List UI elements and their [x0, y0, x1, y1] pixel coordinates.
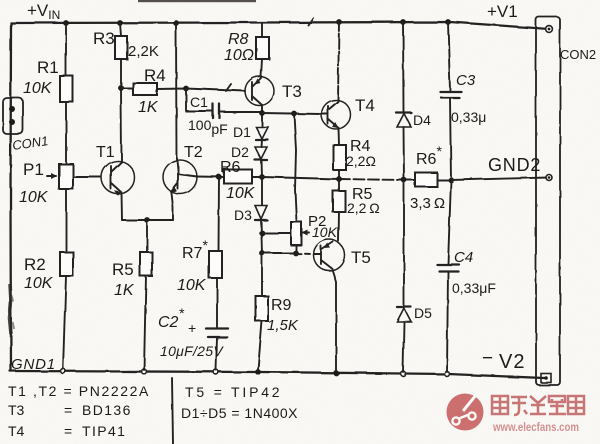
svg-text:0,33μ: 0,33μ: [451, 109, 486, 125]
svg-text:T1: T1: [96, 144, 115, 161]
svg-text:T4: T4: [8, 423, 25, 439]
svg-text:2,2 Ω: 2,2 Ω: [347, 200, 380, 216]
wire T4 base line: [262, 113, 321, 114]
node top rail junctions: [63, 20, 69, 26]
potentiometer P1: [59, 164, 73, 189]
wire R9 to GND1: [258, 321, 262, 370]
resistor R3: [115, 36, 127, 59]
svg-text:R8: R8: [228, 31, 249, 48]
svg-text:0,33μF: 0,33μF: [452, 280, 496, 296]
diode D3: [255, 206, 267, 220]
wire mid node to D3: [261, 177, 263, 205]
wire P2 top to T4 base node: [294, 114, 297, 222]
wire T3 collector to diode chain: [261, 105, 263, 126]
svg-text:D2: D2: [231, 144, 249, 160]
legend divider: [172, 378, 173, 444]
svg-text:www.elecfans.com: www.elecfans.com: [492, 420, 579, 434]
svg-text:10μF/25V: 10μF/25V: [160, 343, 224, 359]
wire R9 lead: [261, 253, 263, 296]
resistor R8 top lead: [261, 23, 263, 37]
transistor T4: [322, 100, 351, 129]
svg-text:V2: V2: [499, 351, 525, 373]
svg-text:R5: R5: [112, 260, 134, 279]
capacitor C3: [440, 90, 461, 92]
resistor R8: [256, 37, 269, 59]
svg-text:T5: T5: [351, 248, 371, 267]
wire R8 to T3: [261, 59, 262, 77]
svg-text:R2: R2: [24, 255, 46, 274]
svg-text:=: =: [64, 423, 72, 439]
diode D1: [256, 127, 268, 139]
svg-text:D1÷D5 = 1N400X: D1÷D5 = 1N400X: [181, 405, 298, 421]
svg-text:GND1: GND1: [11, 356, 56, 373]
svg-text:2,2K: 2,2K: [128, 43, 159, 60]
wire R2 to GND1: [63, 276, 66, 369]
wire left rail: [9, 23, 12, 371]
paper grain: [0, 0, 1, 1]
resistor R5 (2,2 ohm): [338, 179, 340, 191]
svg-text:P1: P1: [23, 160, 44, 179]
svg-text:10K: 10K: [23, 80, 53, 97]
svg-text:R1: R1: [37, 58, 59, 77]
svg-text:R6: R6: [220, 159, 241, 176]
resistor R1: [60, 76, 73, 102]
resistor R2: [60, 252, 73, 276]
watermark CJK text: [492, 396, 584, 415]
left rail ink smudge: [10, 284, 12, 334]
svg-text:10K: 10K: [177, 277, 207, 294]
wire R1 top lead: [65, 23, 67, 76]
wire D3 to P2 node: [261, 220, 262, 253]
wire T5 collector to -V2 rail: [332, 269, 336, 371]
connector CON1: [3, 98, 23, 134]
watermark logo: [447, 394, 484, 431]
wire R1 to P1: [65, 102, 67, 164]
scan streak top edge: [138, 0, 256, 2]
wire pen tick on base wire: [226, 84, 231, 91]
wire T5 base line: [262, 252, 296, 254]
connector CON2: [536, 17, 560, 385]
diode D4: [396, 111, 411, 113]
capacitor C2: [206, 327, 228, 329]
svg-text:T1 ,T2 = PN2222A: T1 ,T2 = PN2222A: [8, 383, 150, 399]
wire P2 wiper line: [262, 232, 291, 234]
svg-text:D3: D3: [234, 207, 252, 223]
svg-text:3,3 Ω: 3,3 Ω: [410, 195, 445, 212]
wire T4 emitter: [338, 128, 341, 145]
wire T1 collector to R3 node: [120, 88, 123, 161]
svg-text:=: =: [64, 402, 72, 418]
wire to R5: [146, 220, 148, 252]
capacitor C4 column: [448, 180, 451, 264]
wire P1 to R2: [65, 189, 67, 252]
diode D5 column: [403, 180, 405, 307]
resistor R5 (1K): [140, 252, 152, 276]
svg-text:BD136: BD136: [82, 402, 132, 418]
wire R4 to T3 base: [157, 89, 245, 92]
wire R7 branch: [218, 177, 221, 251]
resistor R4 (2,2 ohm): [333, 145, 346, 170]
resistor R9: [256, 296, 269, 321]
svg-text:T2: T2: [184, 144, 203, 161]
svg-text:D5: D5: [414, 305, 432, 321]
wire R6 to diode chain: [252, 176, 262, 178]
wire top rail +VIN to +V1: [11, 22, 549, 29]
capacitor C1: [186, 89, 212, 111]
wire R5 to T5 emitter: [338, 212, 341, 241]
wire pen tick on top rail: [308, 18, 313, 25]
transistor T3: [245, 77, 274, 106]
wire R5 to GND1: [144, 276, 146, 370]
svg-text:10K: 10K: [19, 189, 49, 206]
svg-text:R3: R3: [93, 29, 115, 48]
node bottom rail junctions: [61, 369, 66, 374]
wire GND2 to CON2: [451, 178, 549, 181]
svg-text:10K: 10K: [226, 185, 256, 202]
wire R4 to output node: [338, 170, 340, 179]
svg-text:−: −: [482, 348, 493, 369]
svg-text:+: +: [188, 320, 196, 336]
resistor R4 (1K): [133, 83, 157, 95]
svg-text:TIP41: TIP41: [82, 423, 126, 439]
svg-text:2,2Ω: 2,2Ω: [346, 153, 376, 169]
svg-text:C4: C4: [454, 249, 473, 266]
wire T2 collector to R6: [197, 176, 224, 179]
wire T4 collector to rail: [338, 22, 339, 101]
svg-text:10K: 10K: [24, 275, 54, 292]
resistor R6 (10K): [224, 170, 252, 184]
wire T1 emitter down: [121, 193, 124, 220]
svg-text:T3: T3: [8, 402, 25, 418]
svg-text:+V1: +V1: [487, 2, 518, 21]
svg-text:T3: T3: [282, 82, 302, 101]
svg-text:10K: 10K: [312, 224, 338, 240]
transistor T5: [314, 240, 345, 271]
diode D5: [397, 306, 411, 308]
svg-text:T4: T4: [355, 96, 375, 115]
transistor T1: [102, 161, 135, 194]
svg-text:1K: 1K: [114, 282, 135, 299]
resistor R6* (3,3 ohm): [415, 173, 437, 187]
resistor R3 top lead: [120, 23, 121, 36]
transistor T2: [163, 160, 197, 194]
capacitor C4: [437, 263, 459, 265]
wire output rail to GND2: [262, 177, 339, 179]
wire R7 to C2: [216, 278, 218, 327]
wire P1 wiper node to T1 base: [73, 176, 101, 178]
svg-text:T5 = TIP42: T5 = TIP42: [185, 384, 282, 400]
svg-text:R9: R9: [271, 297, 292, 314]
svg-text:D1: D1: [233, 124, 251, 140]
wire R3 to R4 node: [120, 59, 122, 88]
svg-text:C3: C3: [456, 72, 476, 89]
svg-text:GND2: GND2: [488, 155, 541, 175]
svg-text:C1: C1: [190, 94, 208, 110]
svg-text:10Ω: 10Ω: [224, 47, 254, 64]
svg-text:CON2: CON2: [560, 47, 596, 62]
svg-text:R4: R4: [144, 66, 166, 85]
diode D4 column: [402, 22, 405, 112]
svg-text:D4: D4: [413, 112, 431, 128]
wire T2 emitter down: [172, 193, 174, 220]
svg-text:1K: 1K: [138, 99, 159, 116]
resistor R7: [209, 251, 222, 278]
wire emitters rail: [122, 219, 173, 221]
wire R3 node to R4: [121, 87, 133, 89]
svg-text:1,5K: 1,5K: [267, 317, 299, 334]
wire bottom rail GND1 to -V2: [10, 371, 544, 378]
potentiometer P2: [291, 222, 302, 245]
wire D2 to mid node: [261, 160, 264, 177]
diode D2: [261, 140, 264, 147]
capacitor C3 column: [448, 22, 450, 91]
